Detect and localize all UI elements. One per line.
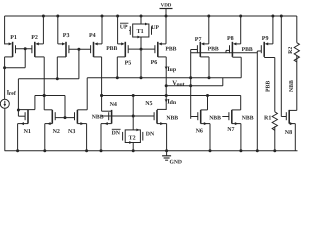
wire Vout to line C vertical — [222, 78, 224, 86]
wire gate node down to line A — [78, 49, 80, 79]
current source Iref — [0, 99, 9, 108]
wire N1 drain lead — [18, 109, 35, 111]
transistor N7 — [229, 110, 232, 124]
label P6 — [151, 60, 158, 66]
svg-text:NBB: NBB — [289, 80, 295, 92]
wire left rail drain segment — [4, 57, 6, 99]
svg-text:N1: N1 — [24, 129, 31, 135]
transistor N5 — [154, 110, 157, 124]
power symbol VDD — [160, 2, 173, 16]
label PBB right of P7 — [208, 46, 219, 52]
node line C junctions — [165, 84, 193, 87]
node N2 N3 gate junction — [64, 116, 67, 119]
wire PBB bus P8-P9 — [226, 52, 257, 54]
svg-text:up: up — [170, 67, 176, 73]
wire line A down to N1 — [17, 79, 19, 116]
label UP at T1 right gate — [151, 25, 159, 31]
transistor P7 — [197, 42, 200, 57]
label T1 — [137, 29, 144, 35]
label N5 — [145, 101, 152, 107]
svg-text:N6: N6 — [196, 128, 203, 134]
wire PBB bus P7-P8 — [191, 52, 226, 54]
wire P6 source from VDD — [158, 16, 166, 45]
label UPbar at T1 left gate — [120, 23, 129, 30]
transistor P9 — [261, 42, 264, 57]
svg-text:UP: UP — [151, 25, 159, 31]
transistor N8 — [286, 110, 289, 124]
label Iup — [167, 66, 176, 73]
wire line A bias — [18, 78, 79, 80]
wire VDD rail to R2 — [296, 16, 298, 43]
wire N4 source — [101, 122, 112, 151]
label N1 — [24, 129, 31, 135]
svg-text:NBB: NBB — [166, 115, 178, 121]
transistor pair T1 — [130, 23, 151, 39]
wire P9 drain to R1 — [264, 58, 275, 112]
wire P3 drain — [57, 57, 66, 79]
svg-text:N4: N4 — [110, 102, 117, 108]
label R2 — [288, 47, 294, 54]
wire N6 gate lead — [191, 116, 198, 118]
node line A P3 drain junction — [56, 77, 59, 80]
node T1 out gate-P6 junction — [140, 48, 143, 51]
label N4 — [110, 102, 117, 108]
wire R2 to N8 drain — [289, 109, 297, 111]
label N7 — [227, 127, 234, 133]
wire N6 drain — [201, 96, 208, 110]
label DN at T2 right gate — [146, 131, 155, 137]
wire PBB bias vertical — [256, 51, 258, 151]
label P7 — [195, 37, 202, 43]
wire P6 drain Iup-Idn vertical — [158, 57, 168, 110]
transistor P8 — [230, 42, 233, 57]
transistor P4 — [91, 42, 94, 57]
node VDD rail junctions — [42, 15, 283, 18]
svg-text:PBB: PBB — [242, 47, 253, 53]
wire N7 source — [232, 122, 241, 151]
svg-text:PBB: PBB — [266, 81, 272, 92]
svg-text:N8: N8 — [285, 130, 292, 136]
wire line C — [166, 85, 223, 87]
transistor P1 — [13, 42, 16, 57]
wire T1 source from VDD — [140, 16, 142, 24]
svg-text:P1: P1 — [10, 35, 17, 41]
wire P7 gate to Vout rail — [191, 50, 198, 78]
svg-text:T1: T1 — [137, 29, 144, 35]
node GND rail junctions — [16, 149, 276, 152]
resistor R1 — [272, 112, 277, 151]
svg-text:ref: ref — [9, 90, 16, 97]
svg-text:P2: P2 — [31, 35, 38, 41]
wire P8 drain to Vout rail — [232, 57, 241, 78]
label R1 — [264, 116, 271, 122]
svg-text:P9: P9 — [262, 36, 269, 42]
svg-text:T2: T2 — [129, 135, 136, 141]
svg-text:NBB: NBB — [242, 115, 254, 121]
wire T1 left gate lead — [129, 30, 130, 32]
wire GND rail — [5, 150, 298, 152]
wire P5 drain to Vout rail — [117, 57, 125, 78]
label NBB right of N5 — [166, 115, 178, 121]
wire N8 source — [289, 122, 295, 151]
wire P4 drain to N4 drain — [94, 57, 112, 111]
svg-text:N2: N2 — [53, 129, 60, 135]
svg-text:R2: R2 — [288, 47, 294, 54]
node A P1 drain-gate tie — [3, 49, 25, 69]
ground symbol GND — [162, 151, 182, 166]
svg-text:PBB: PBB — [106, 46, 117, 52]
label P8 — [227, 36, 234, 42]
transistor P6 — [155, 42, 158, 57]
wire P5 source — [118, 16, 125, 45]
wire P8 gate lead — [226, 50, 230, 52]
svg-text:P3: P3 — [63, 33, 70, 39]
svg-text:UP: UP — [120, 25, 128, 31]
wire P2 drain to N2 drain — [35, 57, 53, 110]
node Vout rail junctions — [116, 76, 211, 79]
wire N2-N3 gate line — [55, 117, 74, 119]
wire line B left segment — [35, 96, 65, 118]
wire P5-P6 cascode gate line — [129, 48, 155, 50]
wire T2 output down — [132, 143, 134, 151]
label NBB at N4 gate — [92, 115, 104, 121]
svg-text:NBB: NBB — [209, 115, 221, 121]
label T2 — [129, 135, 136, 141]
transistor P2 — [32, 42, 35, 57]
wire N3 source — [77, 122, 86, 151]
svg-text:P5: P5 — [125, 61, 132, 67]
svg-text:VDD: VDD — [161, 2, 172, 8]
wire P4 source — [94, 16, 102, 45]
wire line B right segment — [102, 95, 241, 97]
wire Vout rail — [87, 77, 241, 79]
wire T2 input from line B — [132, 96, 134, 130]
wire line B end down to N7 drain — [232, 96, 241, 110]
node T2 gate-line junction — [132, 115, 135, 118]
label P9 — [262, 36, 269, 42]
label N8 — [285, 130, 292, 136]
wire T1 output down — [140, 37, 142, 78]
transistor N3 — [75, 110, 78, 124]
wire P7 drain to Vout rail — [200, 57, 209, 78]
transistor N1 — [25, 110, 28, 124]
svg-text:N3: N3 — [68, 129, 75, 135]
svg-text:PBB: PBB — [208, 46, 219, 52]
label N3 — [68, 129, 75, 135]
wire N6 source — [201, 122, 210, 151]
wire Vout rail end down to N3 drain — [77, 78, 87, 110]
wire P8 source — [233, 16, 241, 45]
wire P3 source — [58, 16, 66, 45]
label P4 — [89, 33, 96, 39]
wire N4-N5 gate line NBB — [100, 115, 154, 117]
wire P9 source — [265, 16, 273, 45]
svg-text:PBB: PBB — [165, 46, 176, 52]
node line B left junction — [43, 94, 46, 97]
transistor P3 — [66, 42, 69, 57]
wire VDD rail — [5, 15, 297, 17]
wire N8 gate lead — [281, 116, 286, 118]
svg-text:DN: DN — [112, 131, 121, 137]
label PBB at P5 gate — [106, 46, 117, 52]
wire N1 gate lead — [18, 115, 25, 117]
wire left rail upper segment — [4, 16, 6, 44]
transistor pair T2 — [123, 129, 143, 144]
wire P1-P2 gate line — [16, 48, 32, 50]
wire N5 drain — [157, 108, 166, 110]
transistor P5 — [125, 42, 128, 57]
wire N7 gate lead — [222, 116, 229, 118]
svg-text:N7: N7 — [227, 127, 234, 133]
label N6 — [196, 128, 203, 134]
node line B right junctions — [100, 94, 209, 97]
label Iref — [7, 90, 16, 97]
label NBB left of N8 — [242, 115, 254, 121]
wire P7 gate vertical to N6 gate — [190, 78, 192, 119]
label NBB vertical — [289, 80, 295, 92]
label N2 — [53, 129, 60, 135]
resistor R2 — [294, 43, 299, 111]
wire N5 source to GND — [157, 122, 167, 151]
wire P3-P4 gate line — [69, 48, 91, 50]
transistor N4 — [109, 110, 112, 124]
label DNbar at T2 left gate — [112, 129, 121, 136]
wire P9 gate lead — [257, 50, 261, 52]
node P3 P4 gate junction — [77, 48, 80, 51]
svg-text:dn: dn — [170, 99, 177, 106]
wire P2 source — [35, 16, 43, 45]
wire Iref to GND rail — [4, 108, 6, 151]
node P4 drain line-B junction — [100, 94, 103, 97]
label P2 — [31, 35, 38, 41]
label P1 — [10, 35, 17, 41]
label PBB right of P8 — [242, 47, 253, 53]
wire N1 source — [18, 122, 28, 151]
label Idn — [167, 98, 177, 105]
wire P1 drain — [5, 56, 13, 58]
wire N2 source — [45, 122, 53, 151]
label PBB right of P6 — [165, 46, 176, 52]
label PBB vertical — [266, 81, 272, 92]
label Vout — [172, 80, 185, 88]
label P5 — [125, 61, 132, 67]
svg-text:DN: DN — [146, 131, 155, 137]
svg-text:R1: R1 — [264, 116, 271, 122]
node P1 P2 gate junction — [24, 47, 27, 50]
wire P1 source — [5, 42, 12, 45]
node P2 drain line-B junction — [43, 94, 46, 97]
wire VDD to NBB vertical — [280, 16, 282, 117]
transistor N6 — [198, 110, 201, 124]
svg-text:P6: P6 — [151, 60, 158, 66]
wire P7 source — [201, 16, 209, 45]
label P3 — [63, 33, 70, 39]
svg-text:P8: P8 — [227, 36, 234, 42]
label NBB left of N7 — [209, 115, 221, 121]
transistor N2 — [52, 110, 55, 124]
svg-text:P7: P7 — [195, 37, 202, 43]
node N1 drain junction — [17, 109, 20, 112]
svg-text:N5: N5 — [145, 101, 152, 107]
svg-text:GND: GND — [170, 159, 182, 165]
svg-text:out: out — [177, 82, 185, 88]
svg-text:P4: P4 — [89, 33, 96, 39]
